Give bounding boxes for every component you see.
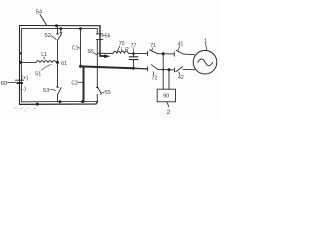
svg-text:60: 60	[1, 81, 7, 87]
label 72	[152, 76, 158, 82]
leader C1	[78, 46, 80, 49]
outer box right wire	[99, 26, 101, 57]
switch 53 lower wire	[57, 95, 59, 102]
switch 55 lower stub	[96, 94, 98, 101]
faint scan speckles	[14, 107, 36, 111]
svg-text:72: 72	[152, 76, 158, 82]
svg-text:41: 41	[178, 42, 184, 48]
svg-text:61: 61	[61, 61, 67, 67]
switch 55 stub	[96, 87, 98, 89]
node dot bottom outer	[36, 103, 39, 106]
svg-text:(+): (+)	[21, 76, 28, 82]
leader 71	[151, 48, 154, 51]
wire switch52 to node 61	[57, 40, 59, 62]
label 41	[178, 42, 184, 48]
top rail to cap	[129, 52, 148, 54]
switch 53 upper wire	[56, 62, 58, 87]
node dot cap top	[132, 52, 135, 55]
svg-text:R: R	[125, 47, 129, 53]
leader 41	[178, 46, 180, 50]
node dot 61	[56, 61, 59, 64]
current arrow	[104, 54, 110, 58]
battery plate short	[17, 82, 22, 84]
leader 51	[41, 64, 51, 70]
outer box left wire	[19, 26, 21, 105]
connector 56 bars	[96, 34, 103, 40]
bottom rail mid	[158, 68, 175, 71]
node dot bottom 53	[59, 100, 62, 103]
label 56	[105, 33, 111, 39]
label 61	[61, 61, 67, 67]
box 90	[157, 89, 175, 102]
leader 53	[50, 89, 56, 90]
node dot 169	[168, 68, 171, 71]
svg-text:58: 58	[88, 49, 94, 55]
label 1	[204, 38, 207, 44]
crossing blob	[162, 69, 164, 71]
top rail mid	[158, 53, 174, 55]
svg-text:52: 52	[45, 33, 51, 39]
bottom rail cap to switch	[134, 67, 148, 70]
svg-text:53: 53	[43, 88, 49, 94]
label 55	[105, 90, 111, 96]
svg-text:51: 51	[35, 72, 41, 78]
svg-text:90: 90	[163, 94, 169, 100]
label C1	[72, 45, 79, 51]
small node mark	[19, 52, 21, 54]
label 77	[131, 43, 137, 49]
leader C2	[78, 81, 83, 83]
inductor L1	[21, 61, 57, 63]
bottom rail to source	[183, 68, 195, 71]
svg-text:42: 42	[178, 75, 184, 81]
leader 55	[101, 92, 105, 95]
node dot C1 top	[79, 27, 82, 30]
capacitor 77 top stub	[133, 54, 135, 57]
leader 42	[179, 72, 180, 75]
capacitor C2 wire thick	[83, 67, 85, 102]
label 70	[119, 41, 125, 47]
capacitor 77 bottom stub	[133, 60, 135, 69]
leader 54	[40, 15, 47, 26]
label 58	[88, 49, 94, 55]
label L1	[41, 52, 47, 58]
leader 56	[102, 35, 105, 38]
svg-text:2: 2	[167, 109, 171, 116]
top rail to source	[184, 53, 195, 56]
inner loop bottom wire	[21, 100, 97, 102]
battery (+)	[21, 76, 28, 82]
node dot cap bottom	[132, 67, 135, 70]
outer box top wire	[20, 25, 101, 27]
switch 42 contact	[174, 68, 176, 72]
label C2	[71, 81, 78, 87]
inner loop left wire lower	[20, 63, 22, 102]
capacitor 77 plates	[129, 57, 138, 60]
inner loop top wire	[21, 29, 97, 62]
leader 60	[8, 81, 16, 83]
capacitor C1 wire	[80, 29, 82, 67]
box 90 text	[163, 94, 169, 100]
node dot battery top branch	[19, 61, 22, 64]
leader L1	[43, 57, 45, 59]
relay coil LR	[113, 51, 129, 53]
label 51	[35, 72, 41, 78]
label 2	[167, 109, 171, 116]
svg-text:L: L	[121, 47, 124, 53]
node dot top inner	[59, 27, 62, 30]
label 54	[36, 9, 43, 15]
svg-text:77: 77	[131, 43, 137, 49]
leader 72	[152, 72, 155, 75]
battery plate long	[15, 79, 23, 81]
label LR	[121, 47, 129, 53]
svg-text:C1: C1	[72, 45, 79, 51]
leader 77	[132, 48, 134, 52]
AC source circle	[193, 50, 217, 74]
label 52	[45, 33, 51, 39]
wire to box 90 right	[168, 70, 170, 90]
switch 71 blade	[150, 50, 158, 54]
switch 72 blade	[151, 65, 157, 70]
leader 58	[93, 53, 97, 55]
battery (-)	[21, 87, 27, 93]
svg-text:54: 54	[36, 9, 43, 15]
node dot top outer	[55, 24, 58, 27]
svg-text:56: 56	[105, 33, 111, 39]
bottom rail from C dot	[81, 66, 134, 68]
svg-text:55: 55	[105, 90, 111, 96]
top rail from box	[97, 52, 113, 54]
label 42	[178, 75, 184, 81]
label 71	[150, 43, 156, 49]
switch 42 blade	[176, 67, 183, 72]
svg-text:(-): (-)	[21, 87, 27, 93]
label 60	[1, 81, 7, 87]
leader 52	[51, 36, 56, 40]
leader 70	[117, 46, 120, 51]
AC sine wave	[198, 59, 213, 66]
switch 41 blade	[176, 50, 183, 54]
inner loop right wire upper	[96, 29, 98, 34]
svg-text:C2: C2	[71, 81, 78, 87]
arrow stub corner	[100, 55, 105, 57]
leader 2	[167, 102, 169, 107]
node dot rail left	[79, 65, 82, 68]
switch 41 contact	[173, 52, 175, 56]
leader 1	[206, 44, 207, 51]
switch 52 stub from outer	[56, 26, 58, 35]
svg-text:71: 71	[150, 43, 156, 49]
switch 72 contact	[147, 67, 149, 71]
outer box bottom wire	[20, 102, 98, 105]
switch 53 blade	[58, 88, 62, 95]
switch 55 blade	[97, 87, 101, 93]
switch 71 contact	[147, 52, 149, 56]
switch 52 stub from inner	[60, 29, 62, 33]
label 53	[43, 88, 49, 94]
wire to box 90 left	[162, 54, 164, 89]
inner loop right wire mid	[96, 39, 98, 87]
node dot 163	[162, 52, 165, 55]
node dot bottom C2	[81, 100, 84, 103]
switch 52 blade	[58, 34, 62, 41]
